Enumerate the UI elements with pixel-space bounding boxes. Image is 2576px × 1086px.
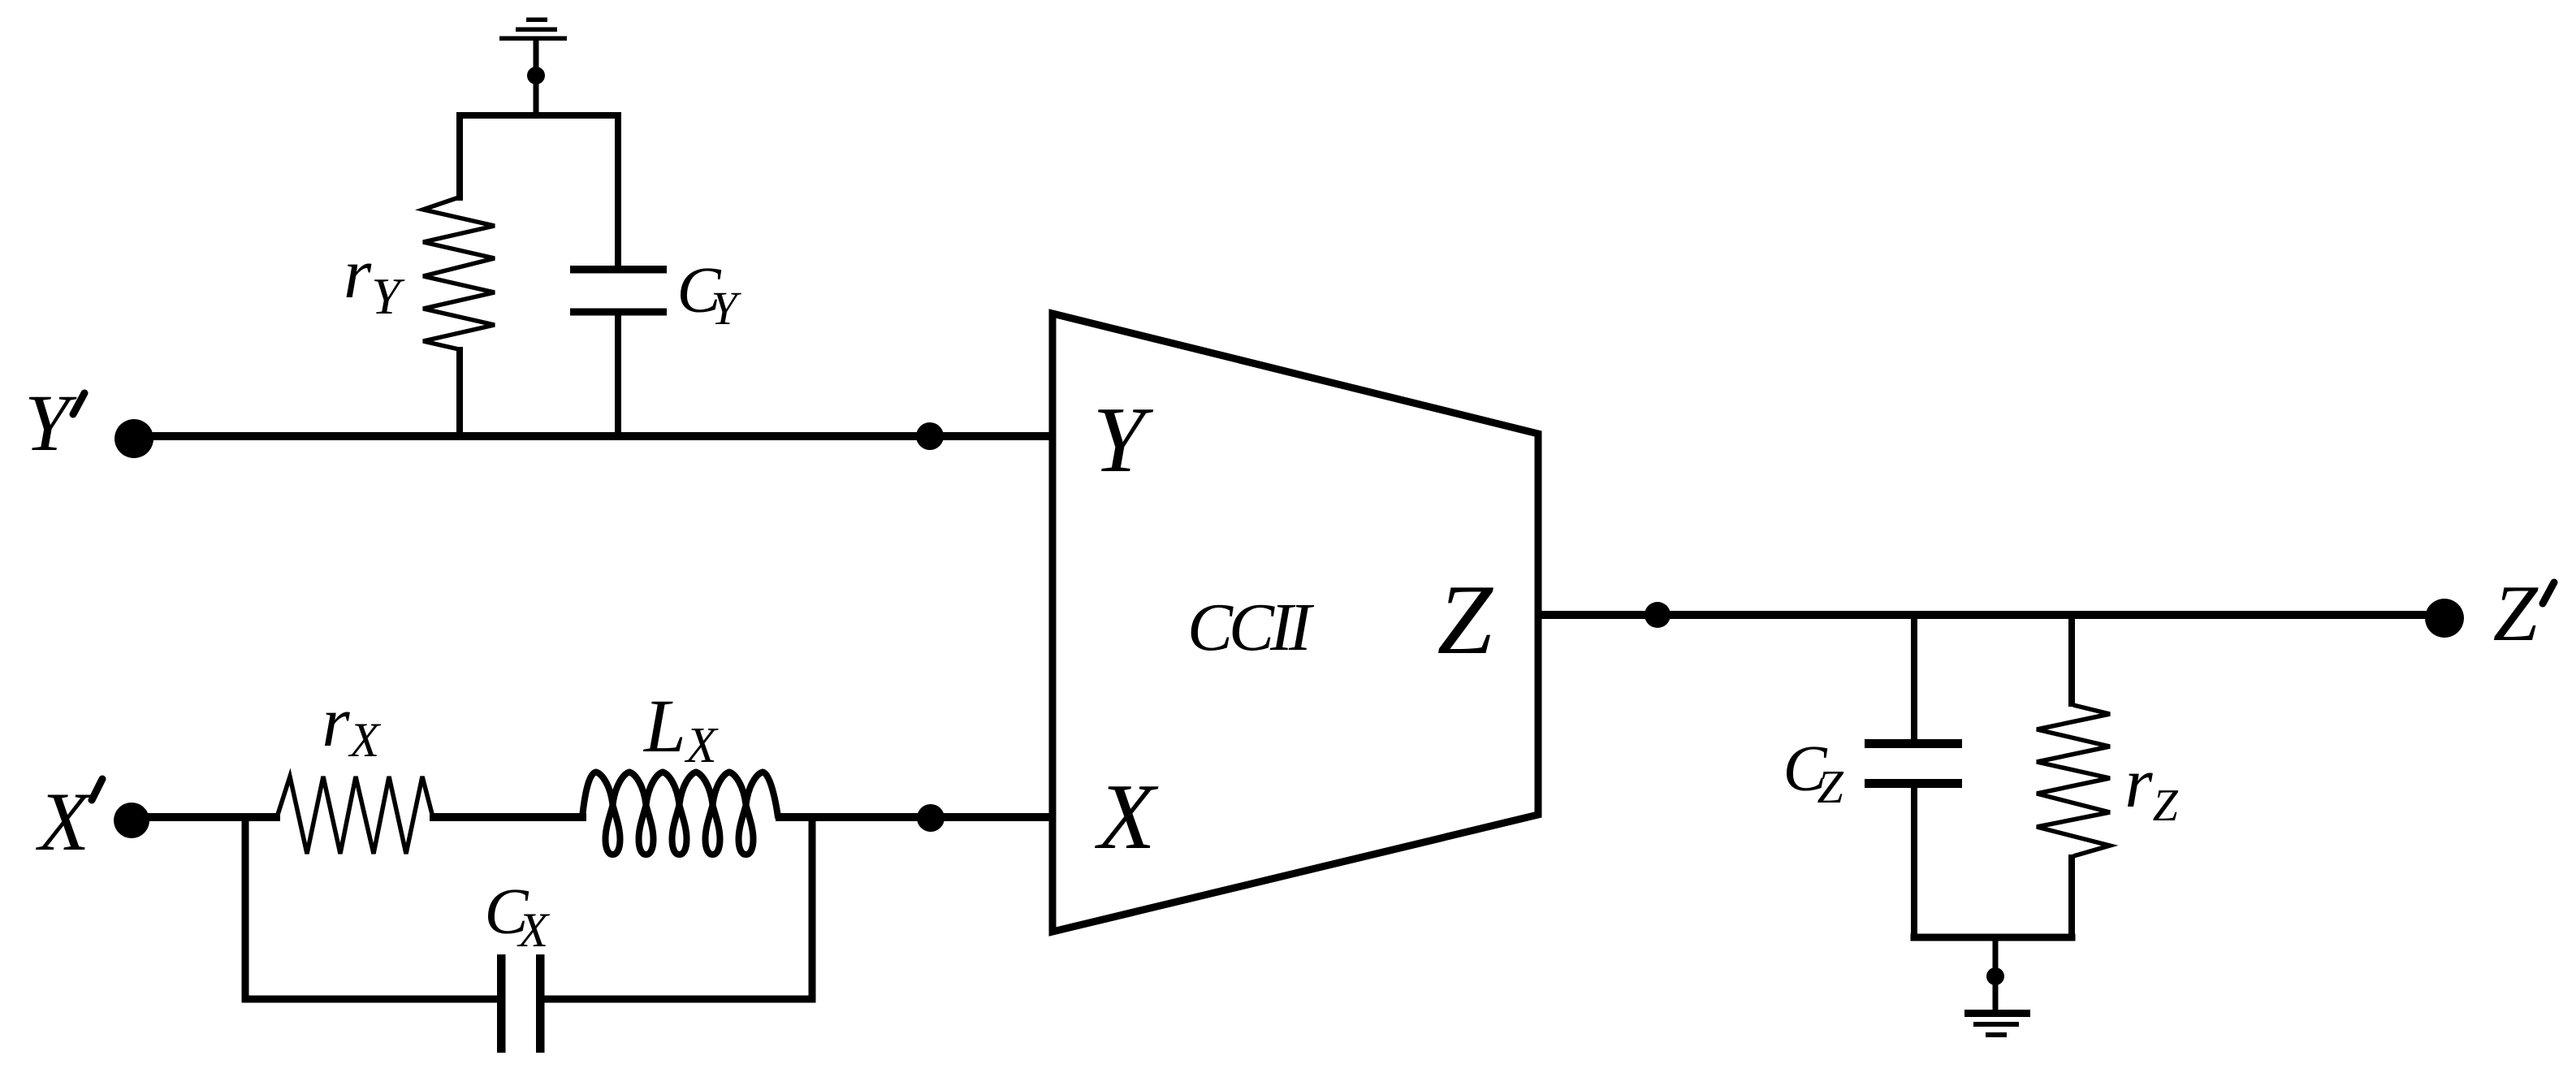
CCII body: [1052, 314, 1538, 932]
svg-text:Y: Y: [1092, 388, 1153, 492]
svg-text:Y: Y: [24, 378, 77, 468]
terminal X': [114, 803, 149, 838]
wire LX to CCII X input: [776, 813, 1056, 821]
wire CZ top lead: [1911, 612, 1917, 742]
terminal Z': [2425, 599, 2464, 638]
capacitor CX: [497, 954, 545, 1053]
wire Z branch bottom bar: [1911, 934, 2076, 941]
wire ground stem bottom: [1993, 934, 1999, 1013]
terminal Y': [115, 419, 153, 458]
svg-text:X: X: [35, 776, 93, 868]
node dot on bottom ground stem: [1986, 967, 2004, 985]
wire Y' to CCII Y input: [134, 432, 1056, 440]
node dot on Y wire: [916, 422, 944, 450]
resistor rX: [277, 777, 433, 854]
wire CX bottom right: [541, 996, 816, 1003]
wire ground stem top: [534, 38, 539, 119]
wire CY bottom lead: [615, 313, 621, 440]
svg-text:Z: Z: [1437, 564, 1494, 675]
svg-text:Z: Z: [2493, 569, 2539, 658]
wire X' to resistor rX: [132, 813, 280, 821]
svg-text:CCII: CCII: [1187, 590, 1315, 665]
wire rY top lead: [456, 112, 463, 201]
resistor rZ: [2037, 705, 2110, 856]
capacitor CY: [570, 266, 667, 316]
wire rZ top lead: [2068, 612, 2075, 707]
wire CZ bottom lead: [1911, 785, 1917, 941]
svg-text:X: X: [1095, 765, 1159, 869]
wire rY bottom lead: [456, 347, 463, 440]
node dot on top ground stem: [527, 67, 545, 84]
wire rX to LX: [430, 813, 586, 821]
wire CX left vertical: [242, 814, 249, 1002]
node dot on X wire: [917, 804, 944, 832]
wire Z output to Z': [1535, 611, 2444, 619]
wire rZ bottom lead: [2068, 855, 2075, 941]
node dot on Z wire: [1645, 602, 1671, 628]
wire top bar of rY/CY pair: [456, 112, 621, 119]
ground symbol bottom: [1964, 1010, 2030, 1037]
inductor LX: [582, 772, 778, 855]
resistor rY: [423, 197, 495, 349]
wire CY top lead: [615, 112, 621, 268]
wire CX bottom left: [242, 996, 501, 1003]
ground symbol top (pointing up): [499, 18, 567, 41]
wire CX right vertical: [809, 814, 816, 1002]
capacitor CZ: [1865, 739, 1962, 788]
